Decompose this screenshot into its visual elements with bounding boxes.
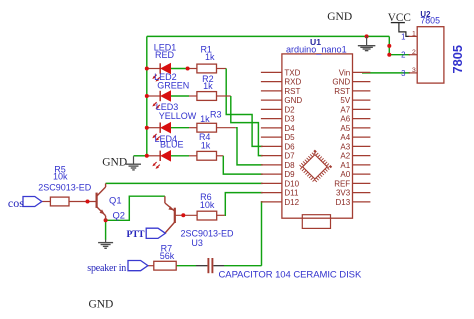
wire (223, 156, 262, 174)
wire (147, 35, 389, 37)
wire (231, 96, 263, 156)
svg-text:7805: 7805 (450, 45, 465, 73)
svg-text:arduino_nano1: arduino_nano1 (286, 44, 347, 54)
svg-text:speaker in: speaker in (87, 263, 126, 274)
wire (362, 72, 410, 74)
svg-text:3: 3 (401, 69, 405, 78)
junction (145, 67, 149, 71)
svg-text:GND: GND (332, 78, 350, 87)
wire (147, 155, 160, 157)
svg-text:R3: R3 (210, 110, 222, 120)
LED LED1 (159, 63, 161, 73)
LED LED2 (159, 91, 161, 101)
svg-text:PTT: PTT (127, 229, 146, 240)
wire (188, 68, 197, 70)
wire (226, 69, 262, 147)
junction (387, 44, 391, 48)
svg-text:D7: D7 (284, 152, 295, 161)
wire (196, 265, 207, 267)
svg-text:1: 1 (412, 31, 416, 38)
svg-text:A1: A1 (340, 161, 350, 170)
resistor R1 (197, 64, 217, 73)
wire (171, 68, 188, 70)
wire (217, 214, 225, 216)
svg-text:3V3: 3V3 (336, 189, 351, 198)
junction (186, 67, 190, 71)
wire (147, 95, 160, 97)
svg-text:GND: GND (327, 11, 352, 23)
wire (69, 201, 96, 203)
svg-text:D13: D13 (336, 198, 351, 207)
U1 chip glyph (300, 152, 329, 181)
svg-text:D12: D12 (284, 198, 299, 207)
wire (189, 95, 197, 97)
svg-text:10k: 10k (200, 200, 215, 210)
resistor R5 (50, 197, 69, 206)
svg-text:GND: GND (88, 299, 113, 311)
svg-text:A3: A3 (340, 142, 350, 151)
ground (105, 240, 107, 243)
wire (106, 196, 165, 220)
wire (134, 155, 147, 157)
wire (147, 127, 160, 129)
wire (147, 68, 160, 70)
svg-text:GND: GND (102, 157, 127, 169)
svg-text:D8: D8 (284, 161, 295, 170)
U1 usb connector (302, 215, 330, 229)
svg-text:56k: 56k (160, 251, 175, 261)
wire (217, 95, 231, 97)
svg-text:A6: A6 (340, 115, 350, 124)
svg-text:D3: D3 (284, 115, 295, 124)
svg-text:RED: RED (155, 50, 175, 60)
svg-text:D5: D5 (284, 133, 295, 142)
resistor R3 (197, 123, 217, 132)
wire (389, 54, 410, 56)
transistor Q1 (95, 193, 97, 208)
junction (387, 53, 391, 57)
port PTT (146, 228, 165, 238)
ground (366, 36, 368, 45)
wire (175, 214, 197, 216)
wire (189, 155, 197, 157)
svg-text:Q1: Q1 (109, 195, 122, 206)
wire (146, 36, 148, 155)
wire (106, 182, 263, 184)
IC U1 arduino_nano1 box (282, 54, 353, 218)
svg-text:1: 1 (401, 32, 405, 41)
U2 pin 3 (409, 72, 418, 74)
svg-text:REF: REF (334, 179, 350, 188)
U2 pin 2 (409, 54, 418, 56)
junction (86, 200, 90, 204)
svg-text:A7: A7 (340, 105, 350, 114)
svg-text:GND: GND (284, 96, 302, 105)
LED LED3 (159, 123, 161, 133)
wire (42, 201, 51, 203)
wire (171, 155, 189, 157)
svg-text:D9: D9 (284, 170, 295, 179)
wire (189, 127, 197, 129)
junction (104, 218, 108, 222)
svg-text:1k: 1k (201, 140, 211, 150)
wire (217, 127, 236, 129)
svg-text:1k: 1k (203, 81, 213, 91)
wire (213, 265, 224, 267)
svg-text:CAPACITOR 104 CERAMIC DISK: CAPACITOR 104 CERAMIC DISK (219, 270, 362, 281)
resistor R4 (197, 151, 217, 160)
svg-text:RXD: RXD (284, 78, 301, 87)
svg-text:7805: 7805 (420, 16, 440, 26)
LED LED4 (159, 151, 161, 161)
svg-text:D11: D11 (284, 189, 299, 198)
svg-text:D4: D4 (284, 124, 295, 133)
svg-text:cos: cos (8, 196, 24, 210)
wire (236, 128, 263, 165)
resistor R6 (197, 211, 217, 220)
wire (171, 95, 189, 97)
svg-text:2SC9013-ED: 2SC9013-ED (180, 228, 234, 238)
svg-text:3: 3 (412, 67, 416, 74)
svg-text:10k: 10k (53, 172, 68, 182)
wire (225, 193, 263, 216)
svg-text:RST: RST (334, 87, 350, 96)
wire (171, 127, 189, 129)
svg-text:2SC9013-ED: 2SC9013-ED (38, 182, 92, 192)
wire (176, 265, 196, 267)
svg-text:D2: D2 (284, 105, 295, 114)
junction (145, 94, 149, 98)
resistor R2 (197, 92, 217, 101)
port cos (23, 197, 42, 207)
svg-text:2: 2 (412, 49, 416, 56)
junction (145, 126, 149, 130)
resistor R7 (154, 261, 176, 270)
wire (217, 68, 227, 70)
svg-text:GREEN: GREEN (157, 80, 189, 90)
svg-text:5V: 5V (340, 96, 350, 105)
wire (224, 265, 262, 267)
junction (145, 154, 149, 158)
port speaker in (128, 261, 148, 271)
ground (133, 156, 135, 164)
wire (388, 36, 390, 54)
svg-text:D10: D10 (284, 179, 299, 188)
wire (148, 265, 154, 267)
svg-text:A4: A4 (340, 133, 350, 142)
svg-text:1k: 1k (200, 114, 210, 124)
svg-text:A0: A0 (340, 170, 350, 179)
junction (181, 213, 185, 217)
wire (105, 220, 107, 240)
transistor Q2 (U3) (174, 208, 176, 223)
wire (217, 155, 224, 157)
svg-text:A5: A5 (340, 124, 350, 133)
svg-text:BLUE: BLUE (160, 139, 184, 149)
svg-text:YELLOW: YELLOW (159, 111, 197, 121)
svg-text:A2: A2 (340, 152, 350, 161)
svg-text:D6: D6 (284, 142, 295, 151)
power VCC symbol (391, 22, 405, 24)
svg-text:RST: RST (284, 87, 300, 96)
U2 pin 1 (409, 35, 418, 37)
regulator U2 box (417, 27, 444, 83)
wire (262, 202, 263, 266)
svg-text:Q2: Q2 (112, 209, 125, 220)
svg-text:TXD: TXD (284, 68, 300, 77)
svg-text:Vin: Vin (339, 68, 350, 77)
junction (365, 34, 369, 38)
svg-text:U3: U3 (191, 238, 203, 248)
capacitor C1 (207, 258, 209, 273)
svg-text:2: 2 (401, 51, 405, 60)
svg-text:1k: 1k (205, 52, 215, 62)
